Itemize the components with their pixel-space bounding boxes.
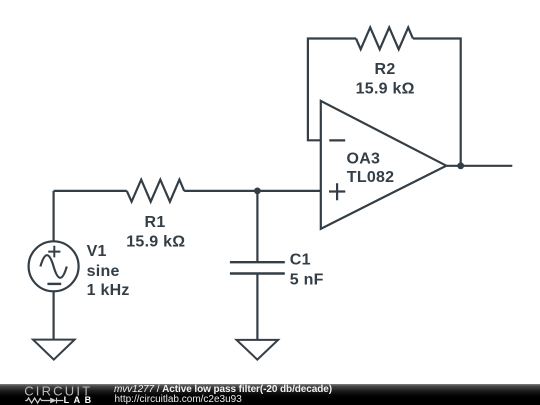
inverting input minus mark [329, 139, 345, 141]
wire C1 to ground [256, 274, 258, 340]
C1 plates [230, 262, 285, 273]
wire V1 to ground [52, 292, 54, 340]
svg-text:R2: R2 [375, 61, 396, 78]
noninverting input plus mark [329, 183, 345, 200]
svg-text:1 kHz: 1 kHz [87, 282, 130, 299]
svg-text:TL082: TL082 [347, 169, 395, 186]
wire feedback left (inverting stub + vertical + top-left segment) [308, 39, 356, 141]
svg-text:15.9 kΩ: 15.9 kΩ [126, 233, 185, 250]
wire main horizontal left of R1 [54, 190, 127, 192]
wire left vertical to V1 [52, 191, 54, 241]
ground under V1 [33, 340, 75, 360]
wire feedback right (vertical + top-right segment) [413, 39, 461, 166]
resistor R2 [356, 27, 413, 49]
V1 sine wave symbol [40, 255, 66, 278]
wire R1 to noninverting input [184, 190, 321, 192]
svg-text:15.9 kΩ: 15.9 kΩ [356, 81, 415, 98]
node output junction [457, 162, 464, 169]
wire output [446, 165, 512, 167]
footer url [115, 394, 242, 405]
ground under C1 [237, 340, 279, 360]
op-amp OA3 [321, 101, 447, 229]
footer title [114, 384, 332, 395]
V1 circle body [29, 241, 79, 291]
footer bar [0, 384, 540, 405]
svg-text:OA3: OA3 [347, 150, 381, 167]
svg-text:V1: V1 [87, 243, 107, 260]
op-amp triangle body [321, 101, 447, 229]
resistor R2 labels [356, 61, 415, 98]
voltage source V1 [29, 241, 130, 299]
V1 plus terminal mark [48, 246, 60, 258]
capacitor C1 [230, 252, 324, 289]
logo diode triangle [50, 398, 56, 404]
resistor R1 labels [126, 214, 185, 250]
wire node to C1 [256, 191, 258, 262]
logo wire after diode [57, 400, 64, 402]
V1 minus terminal mark [47, 283, 61, 285]
svg-text:LAB: LAB [64, 395, 96, 405]
node N1 [254, 188, 261, 195]
logo resistor zigzag [25, 398, 50, 403]
logo diode cathode bar [56, 398, 58, 404]
CircuitLab logo [0, 383, 110, 405]
svg-text:C1: C1 [290, 252, 311, 269]
svg-text:R1: R1 [145, 214, 166, 231]
resistor R1 [127, 180, 184, 202]
svg-text:5 nF: 5 nF [290, 271, 324, 288]
svg-text:sine: sine [87, 263, 120, 280]
